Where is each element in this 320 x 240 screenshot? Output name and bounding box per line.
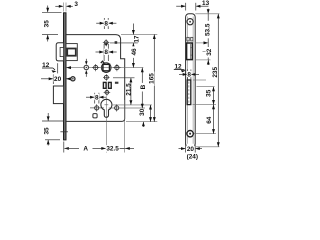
svg-text:35: 35 xyxy=(206,89,213,97)
dimension 46 xyxy=(132,49,135,67)
dimension 35 bottom xyxy=(42,113,64,146)
dimension 53.5 xyxy=(203,9,213,52)
top hole in case xyxy=(103,39,138,46)
svg-text:165: 165 xyxy=(149,73,156,84)
dimension 30 xyxy=(142,105,152,127)
extension line case top right xyxy=(121,33,157,35)
euro profile cylinder hole xyxy=(101,99,112,117)
dimension 3 (faceplate thickness, top) xyxy=(55,3,73,12)
svg-text:30: 30 xyxy=(139,108,146,116)
extension line cylinder axis right xyxy=(112,104,152,106)
svg-text:8: 8 xyxy=(104,49,108,56)
locking prong circle xyxy=(103,74,135,81)
faceplate front outline xyxy=(186,14,196,147)
label 8 cylinder xyxy=(95,94,100,102)
svg-text:3: 3 xyxy=(74,1,78,8)
lock case outline xyxy=(66,35,125,122)
hole above cylinder xyxy=(104,89,111,96)
svg-text:32: 32 xyxy=(206,48,213,56)
faceplate inner lines xyxy=(188,17,193,144)
label 20 xyxy=(53,75,61,83)
dimension 20 bottom xyxy=(179,144,203,153)
locking prongs xyxy=(103,82,111,88)
svg-text:21.5: 21.5 xyxy=(125,83,132,96)
bottom screw hole xyxy=(187,131,193,137)
follower horizontal centerline xyxy=(66,67,143,69)
top screw hole xyxy=(187,19,193,25)
svg-text:53.5: 53.5 xyxy=(205,23,212,36)
svg-text:235: 235 xyxy=(212,67,219,78)
dimension 64 xyxy=(194,105,216,134)
screw hole on case near faceplate xyxy=(71,77,75,81)
svg-text:46: 46 xyxy=(131,48,138,56)
extension line case bottom right xyxy=(126,121,157,123)
dimension 32 xyxy=(196,41,211,65)
follower side holes xyxy=(92,64,121,71)
label 20 bottom xyxy=(186,145,194,153)
label 8 upper xyxy=(104,20,109,28)
dimension 35 right view xyxy=(193,80,217,105)
label 8 right view xyxy=(187,71,192,79)
faceplate side view strip xyxy=(64,13,67,140)
dimension 35 top xyxy=(42,6,62,42)
label 53.5 xyxy=(205,21,212,39)
svg-text:64: 64 xyxy=(206,116,213,124)
dimension 235 xyxy=(195,14,219,147)
latch bolt inside case xyxy=(66,44,77,61)
case tab mark near prongs xyxy=(115,82,119,84)
svg-text:8: 8 xyxy=(187,71,191,78)
latch bolt outside xyxy=(56,43,63,61)
svg-text:13: 13 xyxy=(202,0,210,7)
svg-text:20: 20 xyxy=(54,76,62,83)
svg-text:32.5: 32.5 xyxy=(106,146,119,153)
svg-text:8: 8 xyxy=(104,20,108,27)
dimension 8 at follower xyxy=(96,43,117,61)
dimension 8 upper xyxy=(96,18,116,29)
dimension 21.5 xyxy=(129,78,132,105)
dimension 8 right view xyxy=(179,70,199,80)
deadbolt cutout xyxy=(187,80,191,105)
screw hole with axis arrows left of follower xyxy=(84,59,88,77)
label 35 top xyxy=(43,17,50,30)
label 8 follower xyxy=(104,49,109,57)
svg-text:20: 20 xyxy=(187,146,195,153)
svg-text:A: A xyxy=(83,146,88,153)
label 32 xyxy=(206,47,213,58)
cylinder fixing holes xyxy=(90,104,145,111)
label 35 bottom xyxy=(44,124,51,137)
svg-text:B: B xyxy=(140,84,147,89)
dimension 32.5 xyxy=(106,100,134,153)
label 165 xyxy=(149,72,156,87)
dimension 13 xyxy=(176,3,208,11)
cylinder vertical centerline xyxy=(105,96,107,152)
dimension 8 at cylinder xyxy=(86,93,106,104)
label 46 xyxy=(131,46,138,58)
deadbolt xyxy=(53,86,63,104)
svg-text:35: 35 xyxy=(43,20,50,28)
faceplate bottom tick xyxy=(60,131,68,133)
small square hole below left cylinder screw xyxy=(93,114,97,118)
marks above latch cutout xyxy=(187,37,193,41)
svg-text:35: 35 xyxy=(44,127,51,135)
label 12 right view with leader xyxy=(174,70,186,73)
svg-text:12: 12 xyxy=(42,62,50,69)
dimension A xyxy=(64,142,106,153)
svg-text:8: 8 xyxy=(95,94,99,101)
label B xyxy=(140,83,147,92)
label 12 with leader xyxy=(42,63,58,73)
latch cutout xyxy=(187,43,193,60)
follower hub with square spindle hole xyxy=(101,61,111,72)
dimension 20 (deadbolt throw) xyxy=(41,75,71,85)
dimension 17 xyxy=(132,24,135,50)
dimension B xyxy=(141,68,144,109)
dimension 165 xyxy=(153,34,156,121)
svg-text:(24): (24) xyxy=(187,153,198,160)
label 32.5 xyxy=(106,145,120,153)
svg-text:12: 12 xyxy=(174,63,182,70)
svg-text:17: 17 xyxy=(133,35,140,43)
